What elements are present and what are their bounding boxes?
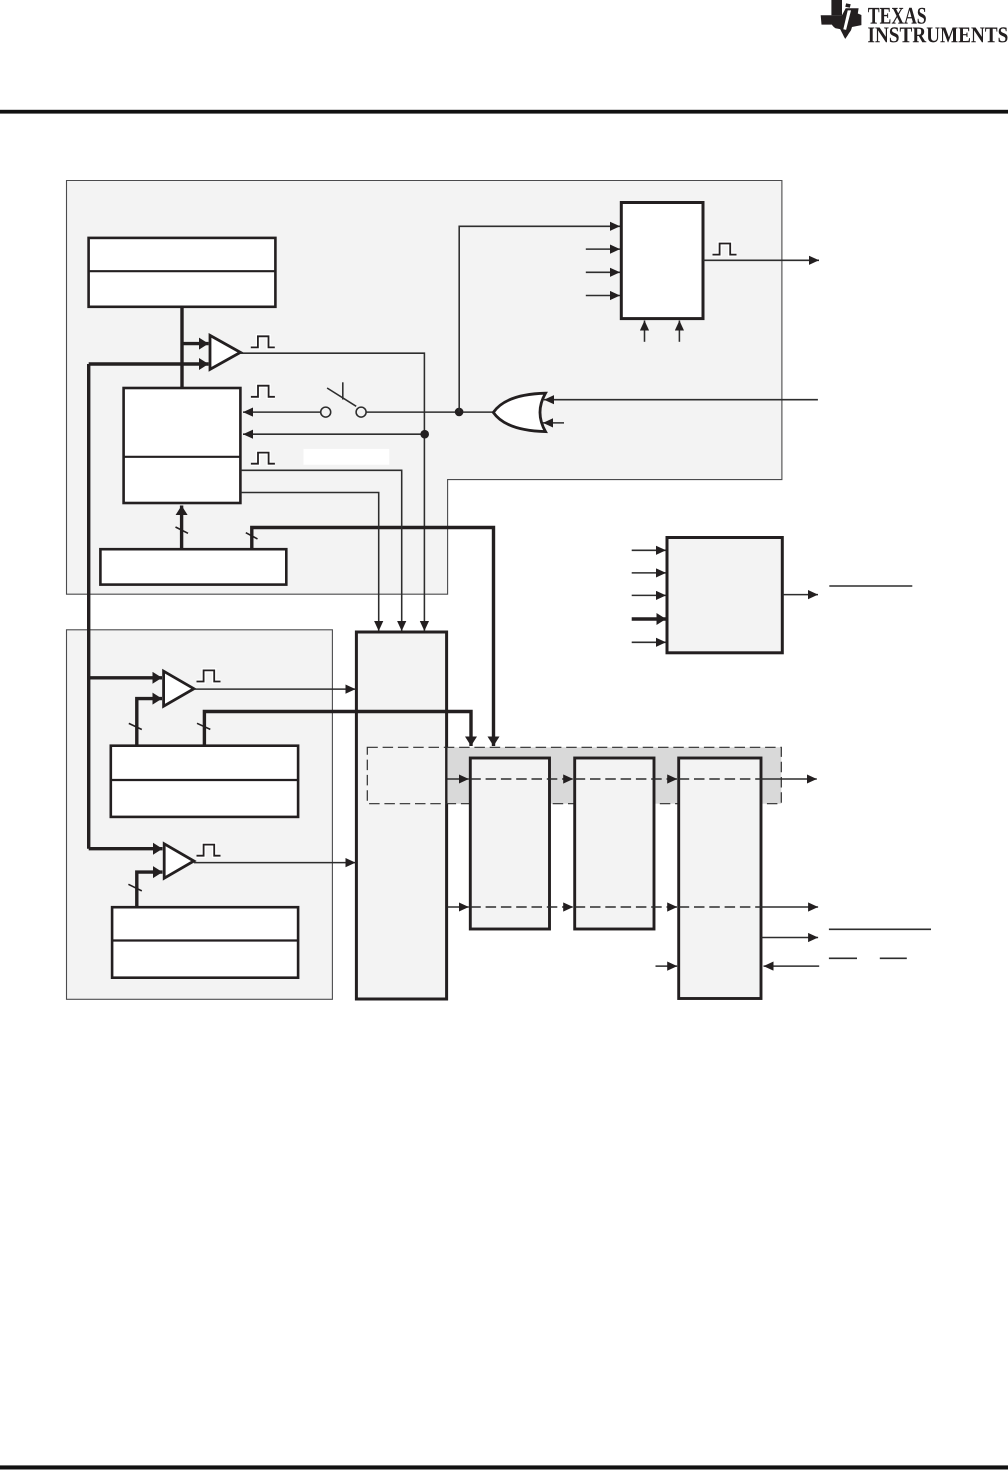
compare chain dashed lower segment 2 — [470, 906, 573, 908]
wire to divider buffer input 2 — [89, 362, 209, 365]
bus slash T3 feed — [128, 884, 141, 891]
count-mode block F — [356, 632, 446, 999]
bus slash T2 feed — [129, 723, 142, 729]
wire box A to divider buffer — [180, 307, 183, 388]
timer block panel — [67, 181, 782, 595]
block D output wire — [703, 259, 819, 261]
counter output wire 1 — [240, 470, 401, 631]
compare chain dashed lower segment 3 — [575, 906, 678, 908]
CCR0 left input stub — [656, 965, 678, 967]
counter output wire 2 — [240, 493, 378, 632]
CCR0 output 2 arrow — [761, 937, 818, 939]
shaded load band — [448, 747, 782, 803]
CCR0 dashed label rule 2 — [880, 957, 907, 959]
block D bottom stub 2 — [678, 321, 680, 342]
switch S1 — [321, 382, 366, 417]
pulse symbol P5 — [197, 670, 221, 681]
CCR0 dashed label rule 1 — [829, 957, 857, 959]
T2 output wire — [194, 688, 356, 690]
CCR block 0 — [679, 758, 761, 999]
CCR block 1 — [470, 758, 549, 929]
capture trigger buffer T2 — [164, 671, 194, 706]
block E input 1 — [632, 549, 666, 551]
load chain dashed upper segment 2 — [470, 778, 573, 780]
block E input 3 — [632, 594, 666, 596]
TI logo bug — [821, 0, 862, 39]
block E output — [782, 594, 818, 596]
compare chain lower output arrow — [761, 906, 818, 908]
block E input 4 thick — [632, 617, 666, 620]
load chain dashed upper segment 4 — [679, 778, 761, 780]
load chain upper output arrow — [761, 778, 817, 780]
T3 output wire — [194, 862, 356, 864]
CCR0 label rule — [829, 928, 931, 930]
top rule — [0, 110, 1008, 114]
pulse symbol P6 — [197, 845, 221, 856]
capture block panel — [67, 630, 333, 1000]
wire switch to counter clock input — [243, 411, 321, 413]
bus slash on box C bus — [246, 533, 258, 539]
load chain dashed upper segment 3 — [575, 778, 678, 780]
capture register box H — [112, 907, 298, 978]
capture register box G — [111, 746, 298, 817]
TI logo word INSTRUMENTS — [868, 27, 1007, 42]
compare chain dashed lower segment 1 — [448, 906, 469, 908]
wire branch to divider buffer input 1 — [182, 342, 209, 345]
wire switch to OR output node — [366, 411, 494, 413]
timer clock box C — [100, 549, 286, 584]
TI logo word TEXAS — [868, 8, 926, 24]
OR input 1 long wire — [544, 399, 818, 401]
dashed load rectangle — [367, 747, 781, 803]
CCR0 right input wire — [764, 965, 820, 967]
block D input 3 — [586, 271, 620, 273]
pulse symbol P3 — [251, 453, 275, 464]
node dot at OR output — [455, 408, 464, 417]
wire junction to counter input 2 — [243, 433, 425, 435]
capture trigger buffer T3 — [164, 844, 194, 878]
wire box H to T3 input 2 — [137, 872, 163, 907]
capture logic block D — [621, 203, 703, 319]
divider buffer U1 — [210, 335, 240, 369]
wire clock column to T3 input 1 — [89, 847, 163, 850]
clock distribution wire (left vertical) — [87, 364, 90, 849]
load chain dashed upper segment 1 — [448, 778, 469, 780]
counter box B — [124, 388, 241, 503]
pulse symbol P4 — [713, 244, 737, 255]
clock source register box A — [89, 238, 276, 307]
OR input 2 stub — [543, 422, 564, 424]
block D input 4 — [586, 295, 620, 297]
bus box C to load band — [252, 528, 494, 747]
block E label rule — [829, 585, 912, 587]
block E input 2 — [632, 572, 666, 574]
compare chain dashed lower segment 4 — [679, 906, 761, 908]
block D bottom stub 1 — [644, 321, 646, 342]
wire box G to T2 input 2 — [137, 699, 162, 747]
block E input 5 — [632, 641, 666, 643]
wire node up to block D input 1 — [459, 226, 620, 412]
node dot at clock column — [420, 430, 429, 439]
pulse symbol P2 — [251, 386, 275, 397]
block D input 2 — [586, 248, 620, 250]
wire box C to counter — [180, 506, 183, 550]
OR gate G1 — [493, 393, 545, 431]
pulse symbol P1 — [251, 336, 275, 347]
compare block E — [667, 538, 782, 653]
bottom rule — [0, 1465, 1008, 1469]
bus slash on counter feed — [176, 527, 189, 533]
buffer output wire to column junction — [240, 353, 424, 631]
capture latch bus from box G to band — [204, 712, 471, 747]
wire clock column to T2 input 1 — [89, 676, 162, 679]
CCR block 2 — [575, 758, 654, 929]
bus slash on latch bus — [197, 723, 210, 729]
white label patch — [304, 449, 390, 465]
